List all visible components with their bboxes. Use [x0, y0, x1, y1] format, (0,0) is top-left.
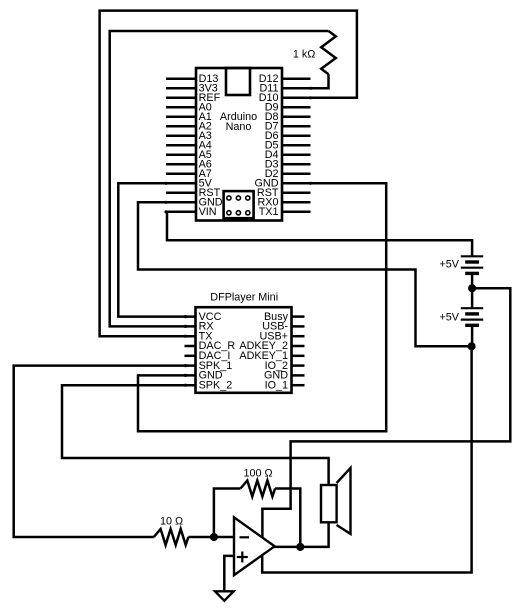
DFPlayer right pin stubs: [292, 317, 305, 386]
battery BT1 plates: [461, 256, 483, 273]
Arduino left pin stubs: [166, 79, 196, 193]
Arduino right pin labels: [255, 73, 279, 218]
wire feedback node up to R2: [214, 489, 241, 538]
wire Arduino GND (left) to battery bottom junction: [138, 202, 472, 346]
junction dot battery bottom: [469, 344, 475, 350]
svg-text:IO_1: IO_1: [265, 379, 288, 391]
battery BT2 lead bottom: [471, 325, 474, 346]
Arduino right pin stubs: [282, 79, 311, 212]
wire DFPlayer SPK_2 to speaker top: [62, 385, 329, 485]
svg-text:Nano: Nano: [226, 121, 252, 133]
svg-text:+5V: +5V: [439, 258, 459, 270]
DFPlayer left pin labels: [199, 311, 236, 392]
speaker LS1 body: [321, 485, 337, 522]
wire battery bottom to op-amp V-: [262, 346, 471, 572]
op-amp minus marker: [240, 536, 250, 538]
svg-text:TX1: TX1: [259, 206, 279, 218]
wire R1 top to DFPlayer RX: [110, 31, 329, 326]
ICSP pin circles: [227, 196, 250, 215]
IC U2 DFPlayer Mini body: [196, 307, 292, 393]
Arduino left pin labels: [199, 73, 223, 218]
wire D10 to DFPlayer TX: [100, 11, 357, 337]
svg-text:DFPlayer Mini: DFPlayer Mini: [210, 292, 278, 304]
wire R2 to op-amp output node: [275, 489, 300, 547]
speaker LS1 cone: [337, 468, 351, 534]
wire op-amp output to speaker bottom: [273, 522, 329, 547]
wire DFPlayer SPK_1 to resistor R3: [14, 366, 196, 537]
svg-text:10 Ω: 10 Ω: [160, 516, 183, 528]
wire Arduino VIN to battery BT1 plus: [167, 212, 472, 256]
resistor R1 1 kOhm (vertical zigzag): [321, 31, 336, 74]
ground symbol: [215, 591, 234, 600]
wire R3 to op-amp inverting input: [188, 536, 234, 539]
Arduino ICSP header: [224, 191, 254, 218]
op-amp plus marker: [237, 552, 248, 563]
wire D11 to resistor R1 bottom: [282, 74, 329, 88]
IC U1 Arduino Nano body: [196, 68, 282, 221]
wire Arduino GND (right) to DFPlayer GND: [138, 183, 386, 431]
pin terminal dots: [164, 87, 312, 387]
wire Arduino 5V to DFPlayer VCC: [118, 183, 196, 316]
svg-text:1 kΩ: 1 kΩ: [293, 49, 315, 61]
junction dot battery mid tap: [469, 286, 475, 292]
wire op-amp plus input to ground: [224, 556, 234, 591]
battery BT1 lead mid: [471, 273, 474, 308]
svg-text:SPK_2: SPK_2: [199, 379, 233, 391]
wire battery mid tap to op-amp V+: [262, 288, 510, 538]
DFPlayer left pin stubs: [185, 346, 196, 356]
svg-text:VIN: VIN: [199, 206, 217, 218]
svg-text:+5V: +5V: [439, 311, 459, 323]
Arduino USB connector: [226, 68, 250, 95]
op-amp U3 triangle: [234, 517, 275, 575]
svg-text:100 Ω: 100 Ω: [243, 468, 272, 480]
junction dot op-amp output: [298, 544, 304, 550]
battery BT2 plates: [461, 308, 483, 325]
resistor R3 10 Ohm (horizontal zigzag): [154, 529, 189, 545]
resistor R2 100 Ohm (horizontal zigzag): [241, 481, 276, 497]
junction dot op-amp inverting input: [211, 534, 217, 540]
DFPlayer right pin labels: [239, 311, 288, 392]
